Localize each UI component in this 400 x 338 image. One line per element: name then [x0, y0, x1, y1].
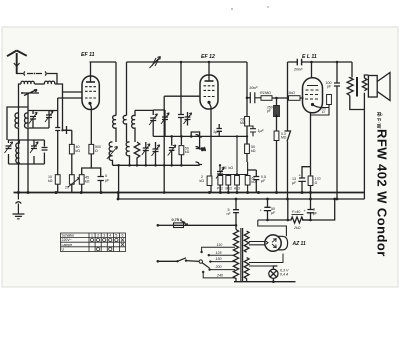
wire: [115, 62, 117, 116]
input tank coil L1: [15, 113, 19, 192]
20nF coupling cap: [297, 59, 301, 66]
rectifier AZ11: [265, 235, 288, 251]
second bus wire: [118, 193, 365, 200]
coil: [123, 115, 126, 142]
svg-text:EF 12: EF 12: [201, 54, 215, 60]
svg-text:10nF: 10nF: [249, 86, 258, 90]
wire: [9, 153, 45, 165]
top bus wire: [90, 61, 353, 63]
svg-text:150: 150: [216, 257, 222, 261]
fuse 0.75A: [158, 224, 174, 226]
wire EF11 plate to top bus: [90, 62, 92, 82]
svg-text:kΩ: kΩ: [251, 149, 256, 153]
speaker voice coil: [362, 75, 368, 110]
resistor 1k horizontal: [289, 96, 301, 101]
volume pot 25k: [216, 167, 224, 178]
B+ takeoff wire: [258, 220, 287, 236]
svg-text:20: 20: [65, 186, 69, 190]
svg-text:Ω: Ω: [315, 181, 318, 185]
pilot lamp: [269, 266, 278, 282]
resistor 45k: [79, 175, 84, 185]
trimmer C4: [30, 142, 38, 153]
wire: [113, 164, 200, 166]
resistor 10k: [55, 175, 60, 185]
coil: [109, 142, 112, 165]
cathode resistor 2k: [207, 176, 212, 186]
tube EF12: [200, 75, 218, 109]
svg-text:110: 110: [217, 243, 223, 247]
cathode resistor 500: [89, 144, 94, 154]
EL11 cathode down: [310, 113, 312, 167]
wire EF11 grid: [58, 92, 82, 130]
tube EL11: [303, 78, 323, 113]
main ground bus: [14, 192, 365, 194]
trimmer: [169, 136, 175, 165]
bus junction dots: [17, 191, 312, 194]
svg-text:5: 5: [115, 234, 117, 238]
heater wires to AZ11: [249, 242, 265, 245]
svg-text:Ω: Ω: [95, 149, 98, 153]
voltage table: [61, 233, 126, 252]
cap: [178, 62, 184, 136]
1uF cap: [217, 124, 222, 136]
svg-text:0,75 A: 0,75 A: [172, 218, 183, 222]
svg-text:E L 11: E L 11: [302, 54, 317, 60]
coil: [126, 142, 129, 165]
svg-text:TA: TA: [201, 148, 206, 152]
scan speck: [231, 8, 233, 10]
svg-text:pF: pF: [267, 109, 271, 113]
wire: [258, 219, 268, 221]
svg-text:kΩ: kΩ: [85, 180, 90, 184]
pot arrow: [68, 178, 80, 188]
mains switch: [158, 258, 199, 262]
grid switch lever: [285, 62, 291, 199]
screen resistor 50k: [180, 136, 182, 165]
svg-text:3: 3: [103, 234, 105, 238]
svg-text:5: 5: [105, 174, 107, 178]
wire antenna block verticals: [19, 89, 29, 127]
wire grid EF12: [164, 95, 200, 97]
coil: [132, 110, 135, 142]
svg-text:kΩ: kΩ: [76, 149, 81, 153]
svg-text:A13: A13: [234, 187, 240, 191]
svg-text:AZ 11: AZ 11: [292, 241, 306, 247]
resistor 1M horizontal: [261, 96, 272, 101]
svg-text:Lampe: Lampe: [62, 243, 73, 247]
field coil 2k: [268, 199, 311, 223]
50k resistor: [245, 144, 250, 154]
svg-text:R·F·W: R·F·W: [375, 112, 381, 129]
svg-text:2: 2: [97, 234, 99, 238]
svg-text:1μF: 1μF: [213, 130, 220, 134]
svg-text:25: 25: [223, 166, 227, 170]
resistor: [69, 175, 74, 185]
svg-text:MΩ: MΩ: [240, 121, 246, 125]
wire: [126, 62, 128, 116]
wire: [28, 111, 58, 129]
trimmer: [184, 113, 192, 124]
transformer core: [241, 228, 243, 281]
power transformer primary: [233, 230, 238, 282]
100pF cap on screen line: [334, 62, 340, 199]
svg-text:kΩ: kΩ: [185, 150, 190, 154]
junction: [61, 129, 63, 131]
svg-text:P12: P12: [217, 187, 223, 191]
trimmer: [161, 113, 169, 124]
bypass electrolytic 5uF: [91, 168, 104, 192]
svg-text:kΩ: kΩ: [229, 166, 234, 170]
wire plate feed: [247, 62, 250, 98]
HV secondary: [244, 231, 249, 252]
tube EF11: [82, 76, 99, 110]
second band tank row: [5, 107, 48, 164]
heater secondary: [244, 258, 249, 282]
svg-text:1: 1: [91, 234, 93, 238]
svg-text:2kΩ: 2kΩ: [293, 226, 301, 230]
svg-text:1kΩ: 1kΩ: [288, 91, 295, 95]
coil: [113, 115, 116, 142]
screen resistor 40k: [69, 144, 74, 154]
input tank coil L2: [24, 113, 28, 192]
series trimmer cap slashes: [150, 57, 161, 69]
svg-text:Ω: Ω: [322, 110, 325, 114]
250pF cap: [276, 98, 278, 105]
wire EL11 top: [311, 62, 313, 78]
anode chain: 10nF cap: [250, 92, 261, 103]
wire: [163, 96, 165, 192]
zigzag coil: [134, 142, 140, 165]
0.3M resistor second: [245, 117, 250, 127]
svg-text:220V~: 220V~: [62, 238, 72, 242]
long right vertical wire: [363, 110, 365, 200]
IF secondary coils row2: [107, 132, 200, 165]
0.3M resistor: [274, 131, 279, 141]
svg-text:M12: M12: [226, 187, 233, 191]
wire EF12 plate to bus: [208, 62, 210, 81]
grid cap: [55, 98, 60, 175]
svg-text:R1MΩ: R1MΩ: [260, 91, 271, 95]
trimmer: [149, 114, 157, 125]
svg-text:125: 125: [216, 251, 222, 255]
svg-text:200: 200: [215, 265, 222, 269]
8uF electrolytic: [302, 199, 335, 220]
cathode resistor 200: [311, 105, 330, 116]
svg-text:0,4 A: 0,4 A: [280, 273, 289, 277]
ground symbol: [12, 193, 24, 219]
wire: [135, 110, 153, 115]
trimmer C1: [29, 112, 37, 123]
voltage selector lever: [199, 260, 202, 263]
0.5uF cap: [253, 170, 259, 192]
svg-text:6: 6: [122, 234, 124, 238]
svg-text:F=40: F=40: [292, 210, 300, 214]
wire: [153, 135, 247, 137]
grid trimmer: [45, 111, 53, 122]
svg-text:kΩ: kΩ: [48, 179, 53, 183]
50uF electrolytic: [264, 199, 271, 220]
wire EF12 cathode: [209, 103, 211, 177]
5nF cap: [233, 199, 239, 225]
svg-text:240: 240: [216, 274, 223, 278]
TA jack bottom: [182, 222, 189, 225]
antenna series switch: [17, 72, 58, 85]
output transformer primary: [347, 62, 364, 110]
svg-text:RFW 402 W Condor: RFW 402 W Condor: [375, 129, 390, 257]
trimmer C3: [5, 142, 13, 153]
bottom bus wire: [234, 281, 296, 283]
170 ohm resistor: [308, 176, 313, 186]
wire loop: [191, 132, 199, 149]
heater wires to dial lamp: [249, 254, 283, 267]
schematic panel background: [2, 27, 398, 287]
svg-text:20nF: 20nF: [293, 68, 303, 72]
svg-text:4: 4: [109, 234, 111, 238]
speaker: [368, 73, 390, 101]
svg-text:1μF: 1μF: [258, 129, 265, 133]
antenna coils: [19, 81, 63, 92]
TA pickup jacks: [196, 135, 207, 165]
svg-text:EF 11: EF 11: [81, 52, 95, 58]
AVC divider resistors: [218, 176, 223, 186]
IF transformer I verticals: [113, 62, 154, 142]
svg-text:MΩ: MΩ: [281, 136, 287, 140]
13uF electrolytic: [298, 167, 310, 193]
svg-text:kΩ: kΩ: [200, 179, 205, 183]
wire: [7, 107, 44, 164]
svg-text:kΩ: kΩ: [252, 180, 257, 184]
wave band switch: [21, 90, 39, 96]
trimmer: [152, 145, 160, 156]
junction dots: [117, 135, 192, 167]
coil L3: [16, 140, 20, 164]
svg-text:Schalter: Schalter: [62, 234, 76, 238]
wire: [118, 165, 120, 199]
padder C5: [42, 140, 48, 150]
trimmer: [142, 144, 150, 155]
transformer core: [356, 77, 358, 97]
transformer taps: [200, 247, 235, 278]
1uF AVC cap: [247, 126, 256, 136]
antenna: [7, 51, 27, 74]
